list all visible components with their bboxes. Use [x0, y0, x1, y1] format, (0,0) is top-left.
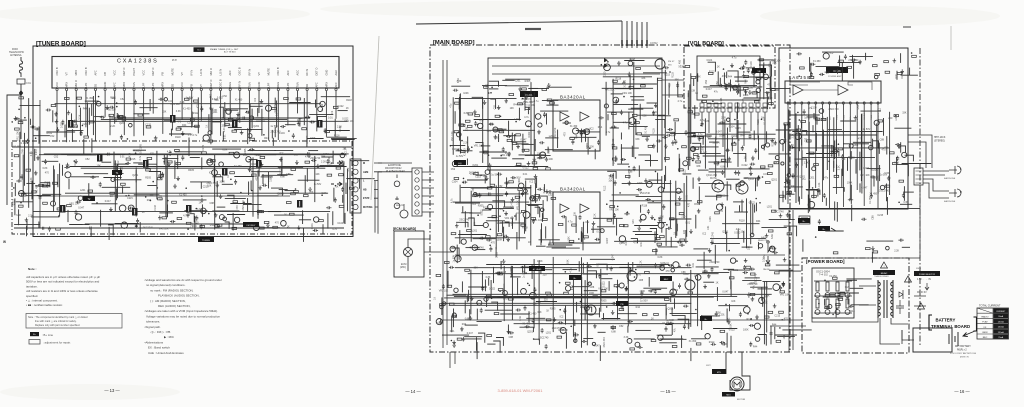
svg-text:1u 50V: 1u 50V — [640, 299, 648, 302]
antenna connector — [17, 79, 25, 84]
svg-text:6.8K: 6.8K — [658, 256, 663, 259]
svg-text:C215: C215 — [735, 127, 741, 130]
svg-text:0.01: 0.01 — [450, 330, 455, 333]
svg-text:line with mark △ are critical: line with mark △ are critical for safety… — [35, 320, 77, 323]
svg-text:AFC: AFC — [334, 82, 338, 87]
svg-text:ETVR: ETVR — [363, 197, 370, 200]
connector trapezoid — [799, 216, 810, 224]
svg-text:3.0V DC/DRY BATTERY R06: 3.0V DC/DRY BATTERY R06 — [950, 352, 977, 355]
svg-text:EQ: EQ — [458, 163, 461, 165]
svg-text:ANTENNA: ANTENNA — [10, 54, 22, 57]
svg-text:2SC1740: 2SC1740 — [459, 218, 470, 221]
svg-text:R112: R112 — [47, 132, 53, 135]
svg-text:2SC1740: 2SC1740 — [628, 168, 631, 179]
svg-text:: B+ Line: : B+ Line — [42, 333, 54, 337]
svg-text:470: 470 — [688, 202, 691, 207]
svg-text:EARPHONE: EARPHONE — [944, 177, 956, 180]
connector feed arrow 2 — [331, 182, 342, 186]
svg-text:•Voltages are taken with a VOM: •Voltages are taken with a VOM (Input Im… — [145, 309, 219, 313]
svg-text:MUTE: MUTE — [170, 68, 174, 76]
label tag IC1 — [194, 47, 205, 52]
power diode D901 — [899, 290, 903, 299]
svg-text:2SC1740: 2SC1740 — [552, 327, 563, 330]
total current table — [977, 304, 1009, 340]
svg-text:C52: C52 — [494, 104, 497, 109]
svg-text:6.8K: 6.8K — [567, 259, 570, 264]
svg-text:C215: C215 — [127, 197, 133, 200]
IF transformer T9 — [132, 208, 138, 216]
svg-text:R6(P) x 2: R6(P) x 2 — [957, 350, 967, 352]
svg-text:R112: R112 — [747, 318, 753, 321]
svg-text:2SC1740: 2SC1740 — [345, 146, 348, 157]
svg-text:1K: 1K — [737, 139, 740, 142]
svg-text:2SC1740: 2SC1740 — [493, 130, 504, 133]
svg-text:W: W — [3, 240, 6, 244]
svg-text:C52: C52 — [548, 194, 553, 197]
wiring cluster main mid-right — [600, 168, 708, 254]
svg-text:TOTAL CURRENT: TOTAL CURRENT — [979, 304, 1001, 308]
svg-text:C88: C88 — [210, 202, 215, 205]
svg-text:LPF: LPF — [267, 82, 271, 87]
svg-text:C215: C215 — [145, 124, 151, 127]
svg-text:R44: R44 — [576, 134, 579, 139]
IF transformer T13 — [68, 120, 74, 128]
svg-text:470: 470 — [637, 274, 642, 277]
svg-text:AFC: AFC — [286, 70, 290, 75]
svg-text:OSC B: OSC B — [276, 67, 280, 75]
svg-text:1K: 1K — [842, 130, 845, 133]
svg-text:0.022: 0.022 — [672, 289, 679, 292]
op IC201 BA3420AL body — [553, 100, 600, 151]
svg-text:R118: R118 — [501, 271, 507, 274]
svg-text:RF IN: RF IN — [238, 81, 242, 88]
svg-text:VR1 10K: VR1 10K — [605, 88, 615, 91]
vol inner box — [697, 56, 760, 100]
svg-text:Q201: Q201 — [652, 111, 659, 114]
IC1 pin wires — [56, 91, 58, 142]
svg-text:6.8K: 6.8K — [322, 192, 327, 195]
top bus horizontal — [416, 21, 622, 24]
svg-text:C88: C88 — [880, 138, 885, 141]
svg-text:▶ : MIC: ▶ : MIC — [164, 335, 174, 339]
svg-text:0.047: 0.047 — [612, 254, 615, 261]
svg-text:[MAIN BOARD]: [MAIN BOARD] — [433, 40, 475, 46]
svg-text:C104: C104 — [707, 59, 713, 62]
svg-text:R118: R118 — [843, 114, 845, 120]
svg-text:CURRENT: CURRENT — [996, 311, 1006, 313]
svg-text:DC IN 3V: DC IN 3V — [917, 292, 927, 294]
svg-text:100K: 100K — [518, 178, 521, 184]
tuner ground bus — [14, 227, 344, 229]
svg-text:0.022: 0.022 — [863, 167, 870, 170]
seam right — [950, 26, 952, 50]
svg-text:REC (AUDIO) SECTION,: REC (AUDIO) SECTION, — [158, 304, 191, 308]
svg-text:VR1 10K: VR1 10K — [170, 103, 180, 106]
svg-text:0.01: 0.01 — [328, 116, 333, 119]
svg-text:C104: C104 — [750, 61, 753, 67]
svg-text:R305: R305 — [525, 80, 531, 83]
label tag T1 — [112, 170, 122, 175]
svg-text:X1 450: X1 450 — [570, 125, 578, 128]
selector arrow — [925, 283, 929, 290]
svg-text:6.8K: 6.8K — [611, 331, 616, 334]
main inner shield box — [488, 58, 662, 170]
main-vol link wires — [662, 80, 779, 95]
svg-text:33K: 33K — [499, 208, 504, 211]
phone symbol L — [949, 166, 961, 174]
svg-text:47u: 47u — [449, 103, 452, 108]
svg-text:470: 470 — [275, 222, 280, 225]
svg-text:R112: R112 — [117, 160, 120, 166]
svg-text:100K: 100K — [743, 328, 749, 331]
svg-text:R305: R305 — [145, 177, 151, 180]
svg-text:UAE : United Arab Emirates: UAE : United Arab Emirates — [148, 351, 184, 355]
svg-text:3.3K: 3.3K — [624, 336, 629, 339]
svg-text:0.022: 0.022 — [338, 105, 345, 108]
IC103 pin labels — [788, 112, 880, 120]
svg-text:470: 470 — [466, 318, 471, 321]
vol riser lines — [702, 112, 765, 147]
IC202 opamp B — [580, 204, 589, 213]
wiring cluster phones top strip — [797, 52, 918, 81]
ecm board outline — [394, 231, 424, 277]
svg-text:PAUSE: PAUSE — [763, 268, 770, 271]
svg-text:MICROPHONE/: MICROPHONE/ — [385, 168, 402, 170]
svg-text:C52: C52 — [727, 317, 730, 322]
svg-text:10K: 10K — [315, 173, 320, 176]
svg-text:2SC1740: 2SC1740 — [310, 157, 321, 160]
svg-text:VR1 10K: VR1 10K — [598, 287, 608, 290]
wiring cluster main far-right — [702, 194, 794, 269]
svg-text:470: 470 — [665, 262, 670, 265]
wiring cluster ic201 inner — [554, 121, 603, 159]
svg-text:IC2: IC2 — [560, 315, 564, 318]
svg-text:R118: R118 — [346, 99, 352, 102]
svg-text:L201: L201 — [719, 313, 725, 316]
svg-text:3.3K: 3.3K — [669, 319, 674, 322]
fm stereo jack circle — [655, 59, 665, 69]
wiring cluster main upper-right-inner — [598, 59, 670, 177]
svg-text:100K: 100K — [719, 134, 725, 137]
IF transformer T11 — [317, 120, 323, 128]
vol board outline — [684, 46, 775, 108]
svg-text:◁▷ : FM ▷ : PB: ◁▷ : FM ▷ : PB — [150, 330, 170, 334]
wiring cluster below vol — [691, 116, 799, 200]
IF transformer T6 — [186, 205, 192, 213]
svg-text:C88: C88 — [297, 119, 300, 124]
svg-text:VCC: VCC — [113, 70, 117, 76]
svg-text:1u 50V: 1u 50V — [491, 173, 499, 176]
svg-text:6.8K: 6.8K — [457, 78, 460, 83]
svg-text:VR1 10K: VR1 10K — [622, 92, 632, 95]
svg-text:R118: R118 — [653, 128, 656, 134]
svg-text:10K: 10K — [510, 107, 515, 110]
svg-text:33K: 33K — [875, 176, 880, 179]
svg-text:SD: SD — [170, 84, 174, 88]
svg-text:•Voltage and waveforms are dc: •Voltage and waveforms are dc with respe… — [145, 278, 222, 282]
svg-text:2.2K: 2.2K — [721, 116, 726, 119]
top bus verticals — [622, 21, 647, 48]
svg-text:33K: 33K — [574, 211, 577, 216]
connector riser wires — [375, 172, 378, 234]
svg-text:0.047: 0.047 — [606, 237, 609, 244]
svg-text:1u 50V: 1u 50V — [586, 146, 594, 149]
svg-text:MPX: MPX — [161, 82, 165, 88]
svg-text:3.3K: 3.3K — [903, 201, 908, 204]
svg-text:VCC: VCC — [142, 70, 146, 76]
svg-text:REMOTE: REMOTE — [758, 240, 768, 242]
svg-text:0.022: 0.022 — [603, 281, 606, 288]
svg-text:R44: R44 — [740, 134, 745, 137]
svg-text:R44: R44 — [794, 176, 799, 179]
svg-text:470: 470 — [150, 152, 155, 155]
svg-text:100K: 100K — [537, 260, 543, 263]
svg-text:R44: R44 — [83, 108, 88, 111]
svg-text:LPF: LPF — [151, 82, 155, 87]
svg-text:R44: R44 — [462, 323, 467, 326]
battery to terminal wire — [902, 330, 952, 340]
svg-text:0.01: 0.01 — [640, 241, 643, 246]
svg-text:1u 50V: 1u 50V — [108, 108, 116, 111]
svg-text:MPX: MPX — [74, 70, 78, 76]
svg-text:33K: 33K — [537, 311, 542, 314]
svg-text:2.2K: 2.2K — [792, 133, 795, 138]
wiring cluster tuner lower — [16, 144, 374, 242]
svg-text:470: 470 — [129, 152, 132, 157]
svg-text:1K: 1K — [434, 296, 437, 299]
motor feed wires — [726, 352, 750, 390]
svg-text:0.01: 0.01 — [692, 262, 695, 267]
main board outline — [430, 45, 790, 352]
svg-text:100K: 100K — [589, 292, 595, 295]
svg-text:1K: 1K — [789, 190, 792, 193]
svg-text:X1 450: X1 450 — [869, 196, 872, 204]
svg-text:— 14 —: — 14 — — [405, 389, 421, 394]
svg-text:10K: 10K — [741, 231, 746, 234]
svg-text:33K: 33K — [841, 158, 846, 161]
svg-text:R44: R44 — [753, 346, 758, 349]
svg-text:4.7u: 4.7u — [167, 151, 172, 154]
svg-text:OSC B: OSC B — [55, 67, 59, 75]
svg-text:220: 220 — [604, 71, 607, 76]
wiring cluster tuner left — [11, 97, 59, 230]
svg-text:1u 50V: 1u 50V — [712, 142, 720, 145]
power exit wires — [880, 296, 926, 344]
svg-text:6.8K: 6.8K — [280, 176, 285, 179]
svg-text:2.2K: 2.2K — [463, 141, 468, 144]
top bus connector ticks — [622, 40, 647, 46]
warning triangle batt — [918, 303, 925, 309]
svg-text:R118: R118 — [849, 310, 855, 313]
svg-text:R118: R118 — [616, 77, 622, 80]
svg-text:47u: 47u — [802, 178, 807, 181]
svg-text:AGC: AGC — [334, 70, 338, 76]
svg-text:X1 450: X1 450 — [529, 313, 537, 316]
transistor Q301 — [712, 180, 724, 192]
svg-text:6.8K: 6.8K — [884, 172, 889, 175]
svg-text:C52: C52 — [294, 154, 299, 157]
svg-text:2SC1740: 2SC1740 — [139, 144, 142, 155]
svg-text:33K: 33K — [772, 62, 777, 65]
power board outline — [802, 258, 909, 353]
svg-text:2SC1740: 2SC1740 — [640, 192, 651, 195]
svg-text:1K: 1K — [717, 66, 720, 69]
svg-text:1K: 1K — [716, 282, 719, 285]
svg-text:33K: 33K — [691, 113, 696, 116]
svg-text:L201: L201 — [472, 230, 478, 233]
svg-text:100K: 100K — [702, 146, 705, 152]
svg-text:VR1 10K: VR1 10K — [344, 120, 354, 123]
svg-text:EX : Band switch: EX : Band switch — [148, 346, 170, 350]
motor M — [730, 377, 744, 391]
wiring cluster main bottom band — [434, 251, 812, 361]
svg-text:R112: R112 — [193, 112, 199, 115]
svg-text:47u: 47u — [714, 91, 719, 94]
svg-text:•Signal path.: •Signal path. — [145, 325, 161, 329]
svg-text:1K: 1K — [142, 211, 145, 214]
svg-text:DET O: DET O — [151, 68, 155, 76]
svg-text:100K: 100K — [269, 176, 272, 182]
svg-text:6.8K: 6.8K — [720, 166, 725, 169]
svg-text:[TUNER BOARD]: [TUNER BOARD] — [36, 41, 86, 48]
svg-text:X1 450: X1 450 — [86, 97, 94, 100]
svg-text:6.8K: 6.8K — [486, 276, 491, 279]
svg-text:1K: 1K — [744, 157, 747, 160]
svg-text:470: 470 — [177, 120, 182, 123]
svg-text:2.2K: 2.2K — [78, 114, 81, 119]
svg-text:3.3K: 3.3K — [837, 165, 840, 170]
wiring cluster main mid-left — [450, 170, 580, 263]
rec pb head — [400, 210, 408, 218]
svg-text:4.7u: 4.7u — [524, 116, 529, 119]
svg-text:1K: 1K — [110, 195, 113, 198]
svg-text:2SC1740: 2SC1740 — [242, 200, 245, 211]
svg-text:0.01: 0.01 — [763, 173, 768, 176]
svg-text:R44: R44 — [513, 103, 518, 106]
svg-text:6.8K: 6.8K — [16, 214, 21, 217]
tag arrow — [831, 228, 836, 231]
jack wires — [908, 135, 932, 168]
svg-text:2SC1740: 2SC1740 — [829, 108, 840, 111]
svg-text:LO IN: LO IN — [199, 69, 203, 76]
svg-text:100K: 100K — [21, 148, 24, 154]
svg-text:220: 220 — [683, 229, 686, 234]
svg-text:L CH: L CH — [583, 220, 589, 224]
svg-text:LO IN: LO IN — [219, 69, 223, 76]
svg-text:47u: 47u — [848, 156, 853, 159]
svg-text:REC: REC — [664, 279, 669, 281]
note column 2 — [145, 278, 222, 355]
label tag AC HEAD — [529, 266, 545, 271]
svg-text:C52: C52 — [120, 98, 125, 101]
svg-text:120mA: 120mA — [998, 320, 1005, 323]
svg-text:33K: 33K — [162, 110, 167, 113]
wiring cluster ic202 inner — [558, 211, 622, 250]
label tag PB — [616, 301, 628, 306]
svg-text:C104: C104 — [452, 148, 458, 151]
svg-text:C52: C52 — [705, 79, 708, 84]
svg-text:4.5V ← → 3V: 4.5V ← → 3V — [917, 279, 932, 281]
svg-text:L201: L201 — [80, 189, 86, 192]
svg-text:6.8K: 6.8K — [717, 160, 720, 165]
svg-text:100K: 100K — [463, 92, 469, 95]
svg-text:TUN: TUN — [132, 82, 136, 87]
svg-text:GND: GND — [324, 70, 328, 76]
svg-text:2.2K: 2.2K — [188, 134, 193, 137]
svg-text:0.01: 0.01 — [686, 194, 689, 199]
svg-text:C52: C52 — [451, 168, 456, 171]
svg-text:C88: C88 — [531, 104, 536, 107]
svg-text:L201: L201 — [546, 332, 552, 335]
svg-text:GND: GND — [257, 82, 261, 88]
svg-text:IC2: IC2 — [254, 97, 257, 101]
IC103 fb wire — [790, 82, 872, 90]
svg-text:T=4 002: T=4 002 — [819, 274, 829, 277]
svg-text:Note : The components identifi: Note : The components identified by mark… — [28, 316, 88, 319]
svg-text:6.8K: 6.8K — [705, 120, 710, 123]
label tag IC 103 — [826, 67, 848, 73]
svg-text:•All capacitors are in μ F unl: •All capacitors are in μ F unless otherw… — [26, 275, 100, 279]
svg-text:— 13 —: — 13 — — [104, 388, 120, 393]
svg-text:100K: 100K — [847, 181, 853, 184]
svg-text:470: 470 — [858, 137, 863, 140]
svg-text:0.047: 0.047 — [105, 200, 112, 203]
svg-text:VR1 10K: VR1 10K — [451, 131, 454, 141]
svg-text:no mark : FM (RADIO) SECTION,: no mark : FM (RADIO) SECTION, — [150, 288, 194, 292]
svg-text:(R6P)/ 3V: (R6P)/ 3V — [960, 357, 969, 359]
svg-text:3.3K: 3.3K — [690, 90, 695, 93]
svg-text:TUNING: TUNING — [202, 240, 210, 242]
svg-text:HB: HB — [363, 188, 367, 191]
hph jack connector — [914, 168, 923, 185]
label tag VR — [752, 68, 766, 73]
svg-text:R44: R44 — [474, 221, 477, 226]
svg-text:IC2: IC2 — [830, 52, 834, 55]
svg-text:4.7u: 4.7u — [193, 134, 198, 137]
IF transformer T5 — [143, 160, 149, 168]
svg-text:R44: R44 — [857, 104, 860, 109]
svg-text:R118: R118 — [757, 119, 760, 125]
svg-text:R44: R44 — [636, 306, 641, 309]
svg-text:•Abbreviations: •Abbreviations — [145, 340, 164, 344]
svg-text:IC2: IC2 — [197, 104, 200, 108]
svg-text:MPX: MPX — [122, 82, 126, 88]
svg-text:1K: 1K — [528, 241, 531, 244]
op IC202 BA3420AL body — [553, 192, 600, 243]
svg-text:RF IN: RF IN — [305, 69, 309, 76]
svg-text:POWER AMP: POWER AMP — [828, 75, 842, 78]
svg-text:AGC: AGC — [295, 70, 299, 76]
svg-text:1K: 1K — [346, 107, 349, 110]
svg-text:(STEREO): (STEREO) — [934, 141, 945, 143]
svg-text:Q201: Q201 — [212, 111, 219, 114]
svg-text:VR1 10K: VR1 10K — [439, 289, 449, 292]
svg-text:C52: C52 — [223, 95, 228, 98]
connector exit wires — [374, 163, 382, 207]
svg-text:C52: C52 — [483, 175, 488, 178]
svg-text:Q201: Q201 — [771, 178, 778, 181]
svg-text:33K: 33K — [568, 236, 571, 241]
transformer T901 — [878, 280, 893, 318]
svg-text:0.022: 0.022 — [543, 187, 546, 194]
svg-text:33K: 33K — [744, 177, 749, 180]
label tag T2 — [83, 196, 95, 201]
svg-text:L201: L201 — [895, 115, 898, 121]
svg-text:: adjustment for repair.: : adjustment for repair. — [43, 341, 71, 345]
svg-text:47u: 47u — [808, 107, 813, 110]
svg-text:33K: 33K — [489, 123, 494, 126]
label tag MTL — [712, 369, 726, 374]
